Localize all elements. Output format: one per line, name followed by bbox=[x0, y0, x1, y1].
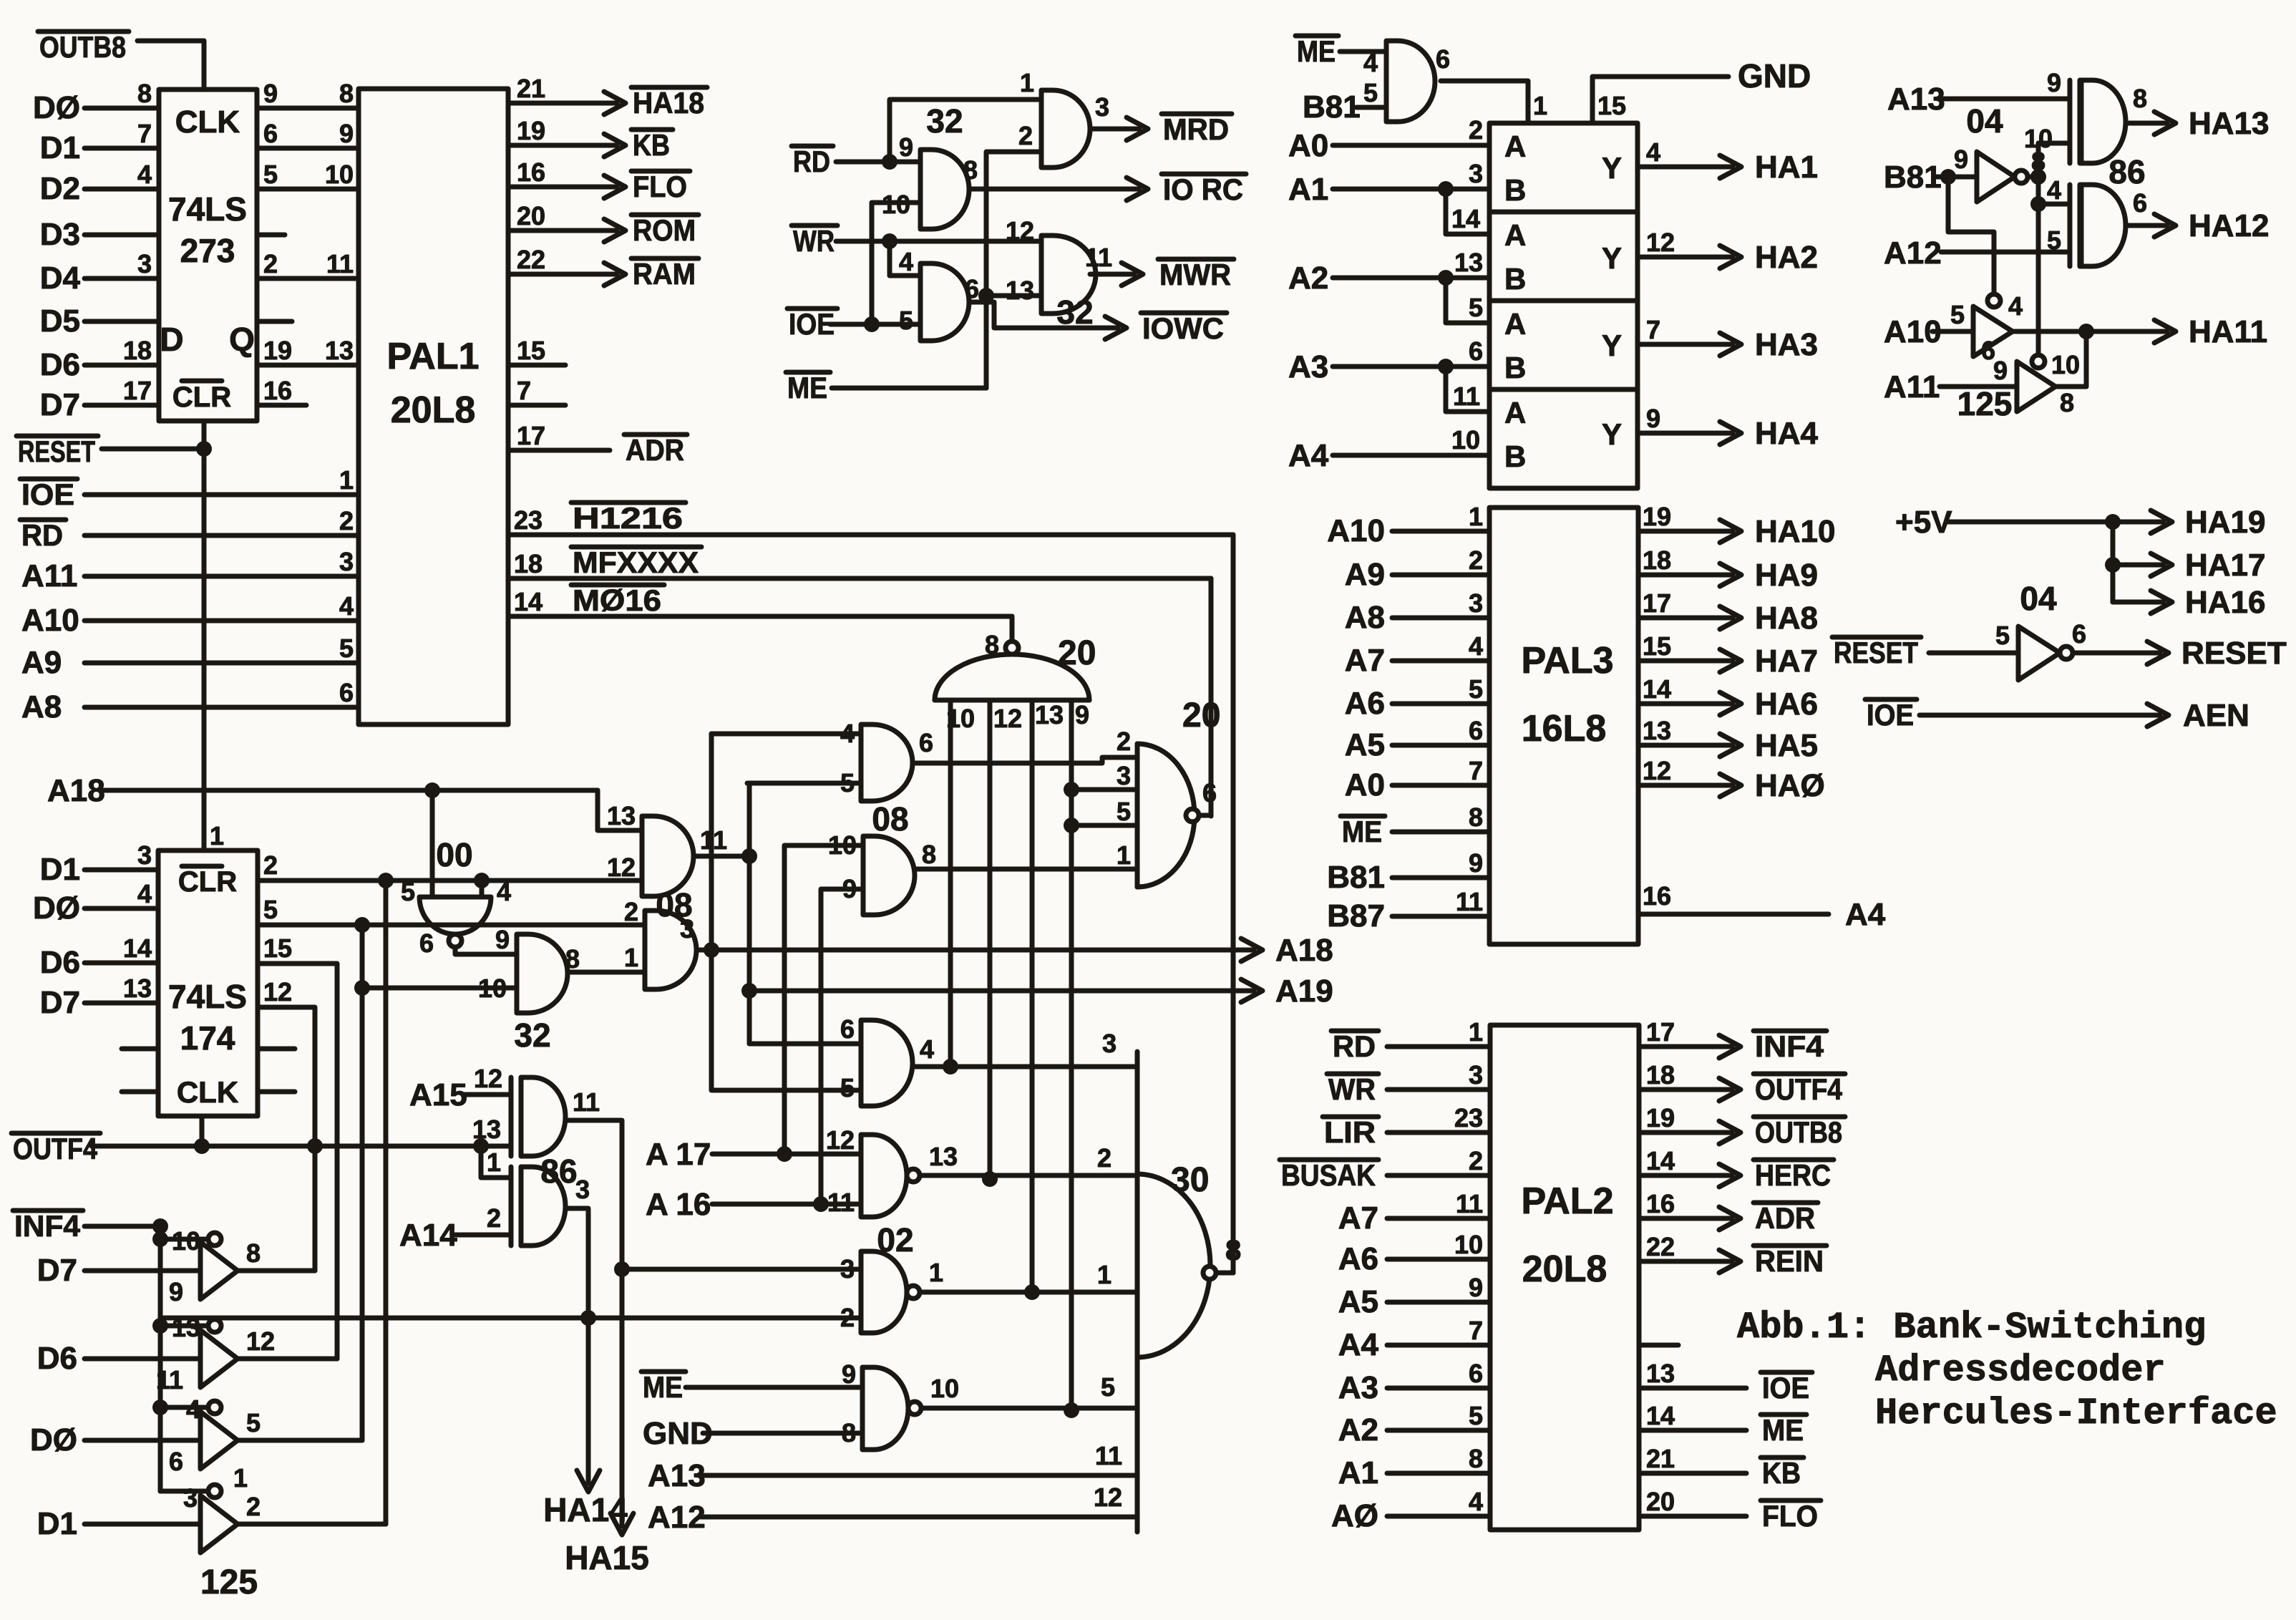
svg-text:A6: A6 bbox=[1345, 686, 1385, 721]
svg-text:3: 3 bbox=[1102, 1029, 1117, 1058]
net HA15 label bbox=[565, 1539, 649, 1576]
nand-gate U16b 74LS20 bbox=[1117, 697, 1220, 887]
svg-text:MFXXXX: MFXXXX bbox=[573, 545, 699, 579]
wire WR to PAL2 pin 3 bbox=[1327, 1060, 1490, 1106]
svg-text:HA2: HA2 bbox=[1755, 240, 1818, 275]
svg-text:3: 3 bbox=[1469, 1060, 1483, 1090]
wire U11 pin 2 row to AND1 pin 12 bbox=[258, 850, 642, 888]
svg-text:20: 20 bbox=[1646, 1487, 1675, 1516]
svg-text:D6: D6 bbox=[37, 1341, 77, 1376]
svg-text:A10: A10 bbox=[1327, 513, 1385, 548]
svg-text:6: 6 bbox=[263, 119, 278, 148]
stub U11 right rows bbox=[258, 1049, 295, 1092]
net RESET output bbox=[2073, 636, 2287, 671]
svg-text:14: 14 bbox=[1643, 674, 1671, 704]
svg-text:INF4: INF4 bbox=[14, 1209, 81, 1243]
svg-text:RD: RD bbox=[21, 518, 63, 552]
svg-text:13: 13 bbox=[1646, 1359, 1675, 1388]
and-gate U14a 7408 bbox=[607, 801, 727, 923]
svg-text:7: 7 bbox=[1646, 315, 1660, 344]
svg-text:HA14: HA14 bbox=[543, 1491, 628, 1528]
wire U19a out to NAND30 pin 2 bbox=[920, 1143, 1137, 1175]
wire AND1 out row bbox=[694, 848, 757, 864]
svg-text:9: 9 bbox=[1469, 1273, 1483, 1302]
svg-text:5: 5 bbox=[1101, 1372, 1115, 1402]
svg-text:2: 2 bbox=[1018, 121, 1033, 150]
svg-text:RD: RD bbox=[1333, 1029, 1376, 1063]
wire ME to PAL3 pin 8 bbox=[1341, 802, 1489, 848]
stub PAL2 unused pin bbox=[1639, 1343, 1678, 1348]
net ME from PAL2 pin 14 bbox=[1639, 1401, 1806, 1447]
svg-text:4: 4 bbox=[2008, 291, 2023, 321]
net HA5 from PAL3 pin 13 bbox=[1638, 716, 1818, 763]
wire A2 to mux pins 13,5 bbox=[1288, 248, 1489, 323]
svg-text:8: 8 bbox=[1225, 1235, 1241, 1266]
svg-text:08: 08 bbox=[872, 800, 908, 838]
wire NAND00 out to OR32 pin 9 bbox=[455, 947, 517, 954]
svg-text:D7: D7 bbox=[40, 387, 80, 422]
wire A4 to mux pin 10 bbox=[1288, 425, 1489, 473]
svg-text:B: B bbox=[1504, 351, 1526, 384]
wire V994 bbox=[711, 734, 861, 1090]
svg-text:KB: KB bbox=[633, 128, 670, 162]
svg-text:8: 8 bbox=[565, 944, 580, 974]
svg-text:12: 12 bbox=[993, 704, 1022, 733]
net OUTF4 from PAL2 pin 18 bbox=[1639, 1060, 1845, 1106]
wire WR to gates bbox=[792, 224, 1041, 276]
svg-text:10: 10 bbox=[2051, 350, 2080, 379]
net HA18 output from PAL1 pin 21 bbox=[508, 74, 707, 120]
net HA3 output bbox=[1638, 327, 1818, 362]
svg-text:A13: A13 bbox=[648, 1458, 706, 1493]
or-gate U13 7432 bbox=[478, 925, 580, 1054]
net M016 from PAL1 pin 14 to NAND20 dome bubble bbox=[508, 583, 1012, 641]
svg-text:74LS: 74LS bbox=[168, 190, 247, 228]
svg-text:Abb.1: Bank-Switching: Abb.1: Bank-Switching bbox=[1737, 1306, 2206, 1349]
svg-text:D5: D5 bbox=[40, 304, 80, 339]
svg-text:20L8: 20L8 bbox=[1522, 1248, 1607, 1290]
svg-text:A: A bbox=[1504, 218, 1526, 252]
net ROM output from PAL1 pin 20 bbox=[508, 201, 699, 247]
net RAM output from PAL1 pin 22 bbox=[508, 245, 699, 291]
svg-text:DØ: DØ bbox=[30, 1422, 77, 1457]
svg-text:D1: D1 bbox=[40, 852, 80, 887]
svg-text:5: 5 bbox=[840, 1073, 855, 1102]
net A18 output row bbox=[696, 933, 1333, 968]
wire D6 to U11 pin 14 bbox=[40, 933, 158, 980]
svg-text:6: 6 bbox=[1469, 336, 1483, 366]
svg-text:4: 4 bbox=[497, 877, 511, 906]
wire A13 to XOR pin 9 bbox=[1887, 68, 2070, 117]
svg-text:9: 9 bbox=[1993, 356, 2008, 385]
svg-text:22: 22 bbox=[1646, 1232, 1675, 1261]
svg-text:5: 5 bbox=[1469, 1401, 1483, 1430]
svg-text:3: 3 bbox=[1469, 159, 1483, 188]
svg-text:1: 1 bbox=[339, 465, 354, 495]
svg-text:A: A bbox=[1504, 130, 1526, 163]
svg-text:2: 2 bbox=[624, 897, 638, 926]
svg-text:19: 19 bbox=[517, 116, 545, 145]
svg-text:PAL3: PAL3 bbox=[1521, 640, 1613, 682]
svg-text:A12: A12 bbox=[648, 1500, 706, 1535]
svg-text:12: 12 bbox=[263, 977, 292, 1007]
wire ME to U19c pin 9 bbox=[641, 1370, 862, 1404]
svg-text:GND: GND bbox=[1738, 57, 1811, 94]
svg-text:13: 13 bbox=[1643, 716, 1671, 745]
svg-text:IOWC: IOWC bbox=[1142, 311, 1224, 345]
svg-text:18: 18 bbox=[1643, 545, 1671, 575]
svg-text:ME: ME bbox=[1762, 1413, 1804, 1447]
net MWR output bbox=[1090, 258, 1234, 291]
svg-text:6: 6 bbox=[2133, 188, 2147, 218]
wire A8 to PAL1 pin 6 bbox=[21, 678, 359, 724]
svg-text:1: 1 bbox=[233, 1463, 248, 1493]
wire inverter out to XOR pins bbox=[2028, 143, 2070, 355]
net HA7 from PAL3 pin 15 bbox=[1638, 631, 1818, 679]
svg-text:6: 6 bbox=[169, 1447, 183, 1476]
svg-text:IOE: IOE bbox=[1762, 1371, 1809, 1405]
net REIN from PAL2 pin 22 bbox=[1639, 1232, 1826, 1278]
wire A3 to PAL2 pin 6 bbox=[1338, 1359, 1490, 1405]
wire D7 to U11 pin 13 bbox=[40, 974, 158, 1020]
svg-text:3: 3 bbox=[183, 1483, 198, 1513]
svg-text:11: 11 bbox=[326, 249, 354, 278]
xor-gate U17a 7486 A15 bbox=[409, 1064, 600, 1156]
wire A16 input bbox=[646, 1187, 861, 1222]
wire U1 Q pin 5 to PAL1 pin 10 bbox=[257, 160, 359, 189]
and-gate U15b 7408 right bbox=[784, 830, 936, 1204]
wire NAND20 pin 9 bus bbox=[1064, 700, 1137, 1418]
svg-text:RAM: RAM bbox=[633, 257, 696, 291]
svg-text:HA12: HA12 bbox=[2189, 208, 2270, 243]
svg-text:A5: A5 bbox=[1338, 1284, 1378, 1319]
svg-text:10: 10 bbox=[828, 830, 857, 860]
svg-text:8: 8 bbox=[137, 79, 152, 108]
svg-text:18: 18 bbox=[1646, 1060, 1675, 1090]
svg-text:2: 2 bbox=[1469, 115, 1483, 145]
svg-text:12: 12 bbox=[474, 1064, 502, 1093]
svg-text:Y: Y bbox=[1602, 241, 1622, 275]
xor-gate U17b 7486 A14 bbox=[399, 1148, 590, 1253]
svg-text:12: 12 bbox=[826, 1125, 855, 1155]
label 86 mid bbox=[540, 1153, 577, 1190]
tri-state buffer 74125 D6 bbox=[37, 1313, 275, 1395]
svg-text:8: 8 bbox=[963, 155, 978, 185]
net HA13 output bbox=[2126, 106, 2270, 141]
svg-text:5: 5 bbox=[401, 877, 415, 906]
svg-text:3: 3 bbox=[1117, 761, 1131, 790]
mux section 2 letters bbox=[1504, 218, 1675, 296]
svg-text:HA3: HA3 bbox=[1755, 327, 1818, 362]
svg-text:B81: B81 bbox=[1303, 89, 1361, 125]
svg-text:IO RC: IO RC bbox=[1163, 173, 1243, 206]
wire AØ to PAL2 pin 4 bbox=[1331, 1487, 1490, 1533]
svg-text:13: 13 bbox=[1035, 700, 1064, 729]
tri-state buffer 74125 D1 bbox=[37, 1463, 261, 1553]
svg-text:A11: A11 bbox=[21, 558, 77, 593]
svg-text:WR: WR bbox=[1328, 1072, 1376, 1106]
svg-text:11: 11 bbox=[1085, 243, 1112, 272]
svg-text:B: B bbox=[1504, 173, 1526, 207]
wire U19c out to NAND30 pin 5 bbox=[922, 1372, 1137, 1408]
wire U15a out to NAND20R pin 2 bbox=[913, 757, 1137, 763]
svg-text:D6: D6 bbox=[40, 347, 80, 382]
svg-text:A4: A4 bbox=[1288, 438, 1329, 473]
net ADR from PAL2 pin 16 bbox=[1639, 1189, 1818, 1235]
stub PAL1 pin 15 bbox=[508, 336, 565, 365]
nand-gate U20 74LS30 bbox=[1137, 1052, 1241, 1532]
svg-text:ME: ME bbox=[1297, 34, 1336, 68]
svg-text:B81: B81 bbox=[1884, 160, 1942, 195]
net OUTB8 input bbox=[38, 30, 204, 89]
svg-text:8: 8 bbox=[339, 79, 354, 108]
svg-text:16: 16 bbox=[1643, 881, 1671, 911]
wire OR32 out to AND2 pin 1 bbox=[568, 970, 645, 975]
svg-text:8: 8 bbox=[246, 1238, 261, 1268]
svg-text:A7: A7 bbox=[1338, 1201, 1378, 1236]
svg-text:9: 9 bbox=[842, 1359, 856, 1389]
svg-text:4: 4 bbox=[137, 879, 152, 908]
svg-text:5: 5 bbox=[1950, 300, 1965, 329]
svg-text:HAØ: HAØ bbox=[1755, 768, 1825, 803]
net FLO output from PAL1 pin 16 bbox=[508, 157, 690, 203]
stub U1 output row D5 bbox=[257, 319, 292, 324]
svg-text:HA10: HA10 bbox=[1755, 514, 1836, 549]
svg-text:A14: A14 bbox=[399, 1218, 457, 1253]
svg-text:PAL2: PAL2 bbox=[1521, 1180, 1613, 1222]
svg-text:12: 12 bbox=[1643, 756, 1671, 785]
wire V1047 bbox=[741, 783, 861, 1044]
xor-gate U6b 7486 HA12 bbox=[2047, 175, 2147, 266]
wire A6 to PAL2 pin 10 bbox=[1338, 1230, 1490, 1276]
svg-text:10: 10 bbox=[172, 1226, 200, 1256]
wire RD to PAL1 pin 2 bbox=[20, 506, 359, 552]
wire A18 to NAND00 pin 5 bbox=[430, 790, 435, 897]
net OUTF4 clock bbox=[11, 1116, 511, 1165]
wire D6 input to U1 pin 18 bbox=[40, 336, 159, 382]
wire XOR1 net to U19b pin 3 bbox=[622, 1267, 861, 1272]
svg-text:D: D bbox=[160, 321, 183, 358]
svg-text:30: 30 bbox=[1171, 1161, 1209, 1199]
wire NAND20 pin 10 bus bbox=[943, 700, 958, 1075]
svg-text:21: 21 bbox=[517, 74, 545, 103]
svg-text:14: 14 bbox=[123, 933, 152, 963]
and-gate U15a 7408 top bbox=[711, 719, 933, 838]
svg-text:HA16: HA16 bbox=[2185, 585, 2266, 620]
svg-text:10: 10 bbox=[1451, 425, 1480, 455]
wire A11 to PAL1 pin 3 bbox=[21, 547, 359, 593]
wire XOR2 net to U19b pin 2 bbox=[160, 1316, 861, 1321]
svg-text:HA15: HA15 bbox=[565, 1539, 649, 1576]
svg-text:11: 11 bbox=[573, 1087, 600, 1117]
svg-text:4: 4 bbox=[920, 1034, 934, 1064]
svg-text:1: 1 bbox=[487, 1148, 501, 1177]
wire NAND20 pin 12 bus bbox=[982, 700, 998, 1187]
wire U1 Q pin 6 to PAL1 pin 9 bbox=[257, 119, 359, 148]
mux section 3 letters bbox=[1504, 307, 1660, 384]
svg-text:1: 1 bbox=[1533, 91, 1547, 120]
wire U11 pin 15 row bbox=[258, 933, 337, 1359]
xor-gate U6a 7486 HA13 bbox=[2024, 80, 2147, 163]
svg-text:12: 12 bbox=[1094, 1483, 1122, 1512]
net A19 output row bbox=[749, 974, 1333, 1009]
or-gate U3c 74LS32 bbox=[899, 247, 979, 341]
net HA10 from PAL3 pin 19 bbox=[1638, 502, 1836, 549]
svg-text:MWR: MWR bbox=[1159, 258, 1231, 291]
svg-text:19: 19 bbox=[1646, 1103, 1675, 1132]
svg-text:11: 11 bbox=[1456, 887, 1483, 916]
svg-text:8: 8 bbox=[985, 630, 999, 659]
wire A10 to PAL1 pin 4 bbox=[21, 591, 359, 638]
svg-text:DØ: DØ bbox=[33, 891, 80, 926]
wire DØ to U11 pin 4 bbox=[33, 879, 158, 926]
wire D4 input to U1 pin 3 bbox=[40, 249, 159, 296]
wire A12 to XOR pin 5 bbox=[1884, 236, 2070, 271]
svg-text:9: 9 bbox=[339, 119, 354, 148]
svg-text:13: 13 bbox=[1454, 248, 1483, 277]
svg-text:3: 3 bbox=[339, 547, 354, 576]
stub U11 left rows bbox=[122, 1049, 158, 1092]
svg-text:12: 12 bbox=[1646, 228, 1675, 257]
net IORC output bbox=[969, 173, 1246, 206]
svg-text:LIR: LIR bbox=[1324, 1115, 1376, 1149]
wire A0 to PAL3 pin 7 bbox=[1345, 756, 1489, 802]
svg-text:2: 2 bbox=[1097, 1143, 1111, 1173]
svg-text:19: 19 bbox=[1643, 502, 1671, 531]
svg-text:3: 3 bbox=[1095, 92, 1109, 122]
svg-text:22: 22 bbox=[517, 245, 545, 274]
svg-text:15: 15 bbox=[1597, 91, 1626, 120]
inverter U7b 7404 RESET bbox=[1832, 580, 2086, 680]
svg-text:Hercules-Interface: Hercules-Interface bbox=[1875, 1392, 2277, 1435]
IC U10 PAL2 20L8 bbox=[1490, 1025, 1639, 1530]
wire B81 to inverter bbox=[1884, 145, 1977, 195]
svg-text:5: 5 bbox=[246, 1408, 261, 1437]
svg-text:13: 13 bbox=[472, 1115, 501, 1144]
svg-text:A4: A4 bbox=[1845, 897, 1886, 932]
svg-text:MØ16: MØ16 bbox=[573, 583, 661, 617]
svg-text:A1: A1 bbox=[1288, 172, 1328, 207]
svg-text:20: 20 bbox=[1058, 634, 1096, 672]
svg-text:HA5: HA5 bbox=[1755, 728, 1818, 763]
wire D3 input to U1 pin - bbox=[40, 217, 159, 252]
svg-text:CLK: CLK bbox=[177, 1075, 238, 1109]
net HAØ from PAL3 pin 12 bbox=[1638, 756, 1825, 803]
svg-text:HA17: HA17 bbox=[2185, 548, 2266, 583]
wire U11 pin 12 row bbox=[258, 977, 323, 1271]
svg-text:10: 10 bbox=[1454, 1230, 1483, 1259]
svg-text:HERC: HERC bbox=[1755, 1158, 1831, 1192]
wire D7 input to U1 pin 17 bbox=[40, 376, 159, 422]
IC U9 PAL3 16L8 bbox=[1489, 508, 1638, 944]
svg-text:+5V: +5V bbox=[1895, 505, 1952, 540]
wire IOE to PAL1 pin 1 bbox=[20, 465, 359, 511]
svg-text:H1216: H1216 bbox=[573, 501, 683, 535]
svg-text:HA19: HA19 bbox=[2185, 505, 2266, 540]
and-gate U14b 7408 bbox=[624, 897, 696, 989]
svg-text:17: 17 bbox=[517, 421, 545, 450]
wire U1 Q pin 9 to PAL1 pin 8 bbox=[257, 79, 359, 108]
net KB output from PAL1 pin 19 bbox=[508, 116, 673, 162]
svg-text:12: 12 bbox=[1006, 216, 1034, 246]
wire DØ input to U1 pin 8 bbox=[33, 79, 159, 125]
wire buf D0 output bbox=[238, 1438, 362, 1443]
svg-text:ROM: ROM bbox=[633, 213, 696, 247]
svg-text:5: 5 bbox=[1995, 621, 2010, 650]
svg-text:1: 1 bbox=[210, 821, 224, 850]
svg-text:4: 4 bbox=[899, 247, 913, 276]
svg-text:B: B bbox=[1504, 262, 1526, 296]
svg-text:A8: A8 bbox=[1345, 600, 1385, 635]
net MRD output bbox=[1090, 112, 1232, 146]
svg-text:23: 23 bbox=[1454, 1103, 1483, 1132]
wire D1 to U11 pin 3 bbox=[40, 840, 158, 887]
svg-text:A8: A8 bbox=[21, 689, 62, 724]
net HA11 output bbox=[2013, 314, 2267, 349]
stub U1 output row D3 bbox=[257, 233, 285, 238]
svg-text:A19: A19 bbox=[1275, 974, 1333, 1009]
svg-text:14: 14 bbox=[1451, 204, 1480, 233]
svg-text:D6: D6 bbox=[40, 945, 80, 980]
svg-text:4: 4 bbox=[186, 1395, 200, 1424]
svg-text:19: 19 bbox=[263, 336, 292, 365]
svg-text:273: 273 bbox=[180, 232, 235, 269]
svg-text:HA8: HA8 bbox=[1755, 601, 1818, 636]
svg-text:A5: A5 bbox=[1345, 727, 1385, 762]
net MFXXXX from PAL1 pin 18 to NAND20 output bbox=[508, 545, 1211, 816]
svg-text:174: 174 bbox=[180, 1019, 235, 1057]
svg-text:A0: A0 bbox=[1345, 767, 1385, 802]
svg-text:6: 6 bbox=[1469, 716, 1483, 745]
wire A4 to PAL2 pin 7 bbox=[1338, 1316, 1490, 1362]
svg-text:86: 86 bbox=[2108, 153, 2145, 190]
svg-text:CLR: CLR bbox=[178, 866, 237, 898]
inverter U7a 7404 bbox=[1977, 147, 2046, 202]
wire RD to PAL2 pin 1 bbox=[1331, 1017, 1490, 1063]
svg-text:A3: A3 bbox=[1288, 349, 1328, 384]
svg-text:4: 4 bbox=[1469, 1487, 1483, 1516]
svg-text:4: 4 bbox=[1363, 48, 1378, 77]
net OUTB8 from PAL2 pin 19 bbox=[1639, 1103, 1845, 1149]
wire A6 to PAL3 pin 5 bbox=[1345, 674, 1489, 721]
svg-text:CLR: CLR bbox=[172, 382, 231, 413]
svg-text:A18: A18 bbox=[1275, 933, 1333, 968]
svg-text:16: 16 bbox=[1646, 1189, 1675, 1218]
svg-text:1: 1 bbox=[1469, 502, 1483, 531]
mux section 4 letters bbox=[1504, 396, 1660, 473]
wire U1 Q pin 19 to PAL1 pin 13 bbox=[257, 336, 359, 365]
wire B81 to PAL3 pin 9 bbox=[1327, 848, 1489, 895]
net HA8 from PAL3 pin 17 bbox=[1638, 588, 1818, 636]
svg-text:5: 5 bbox=[1469, 674, 1483, 704]
svg-text:D1: D1 bbox=[40, 130, 80, 165]
svg-text:ME: ME bbox=[643, 1370, 683, 1404]
svg-text:1: 1 bbox=[1469, 1017, 1483, 1047]
or-gate U3b 74LS32 IORC bbox=[882, 132, 978, 229]
wire U15b out to NAND20R pin 1 bbox=[915, 867, 1137, 872]
nor-gate U19b 7402 bbox=[840, 1251, 943, 1333]
svg-text:Y: Y bbox=[1602, 417, 1622, 451]
svg-text:KB: KB bbox=[1762, 1456, 1801, 1490]
svg-text:2: 2 bbox=[1469, 1146, 1483, 1175]
svg-text:6: 6 bbox=[419, 928, 434, 958]
wire U19b out to NAND30 pin 1 bbox=[920, 1260, 1137, 1292]
svg-text:Adressdecoder: Adressdecoder bbox=[1875, 1349, 2166, 1392]
svg-text:HA4: HA4 bbox=[1755, 416, 1819, 451]
svg-text:32: 32 bbox=[514, 1017, 550, 1054]
nor-gate U19c 7402 bbox=[842, 1359, 959, 1450]
svg-text:5: 5 bbox=[899, 306, 913, 335]
